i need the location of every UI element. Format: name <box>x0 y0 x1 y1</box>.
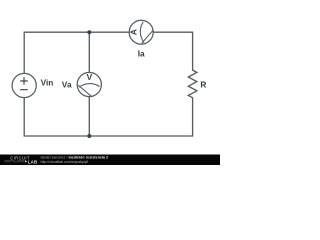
voltmeter Va <box>77 72 101 97</box>
svg-text:daniel sanchez / medición resi: daniel sanchez / medición resistencia 2 <box>41 156 109 160</box>
svg-text:Va: Va <box>62 79 72 89</box>
svg-text:Vin: Vin <box>41 78 54 88</box>
svg-text:R: R <box>200 80 206 90</box>
CircuitLab logo wordmark <box>5 155 38 164</box>
svg-text:A: A <box>129 29 139 35</box>
plus sign of Vin <box>20 77 28 85</box>
voltage source V1 Vin <box>12 73 36 97</box>
svg-text:V: V <box>86 72 92 82</box>
watermark bar <box>0 155 220 166</box>
meter needle <box>78 85 92 97</box>
wire top left segment <box>24 31 129 33</box>
wire left vertical lower <box>23 98 25 136</box>
meter dial arc <box>79 84 100 88</box>
wire left vertical upper <box>23 32 25 73</box>
svg-text:LAB: LAB <box>28 159 38 164</box>
minus sign of Vin <box>20 89 28 91</box>
wire right vertical upper <box>192 32 194 70</box>
ammeter Ia <box>129 20 154 44</box>
wire voltmeter bottom <box>88 97 90 136</box>
wire voltmeter top <box>88 32 90 72</box>
wire bottom horizontal <box>24 135 192 137</box>
meter needle <box>142 30 154 44</box>
svg-text:Ia: Ia <box>138 49 145 59</box>
svg-text:http://circuitlab.com/c/qnakpq: http://circuitlab.com/c/qnakpq8 <box>41 160 88 164</box>
resistor R <box>188 70 197 98</box>
wire right vertical lower <box>192 98 194 136</box>
junction node bottom <box>87 134 91 138</box>
meter dial arc <box>140 22 144 43</box>
junction node top <box>87 30 91 34</box>
wire top right segment <box>153 31 192 33</box>
